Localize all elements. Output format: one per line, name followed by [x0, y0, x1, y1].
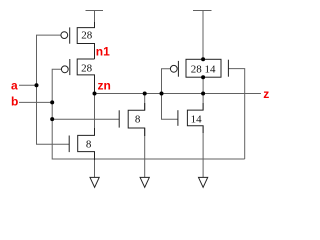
svg-text:28: 28: [81, 30, 93, 42]
svg-text:a: a: [11, 78, 18, 92]
svg-text:b: b: [11, 95, 18, 109]
svg-text:8: 8: [135, 113, 141, 125]
svg-text:zn: zn: [98, 79, 111, 93]
svg-text:28 14: 28 14: [191, 63, 216, 75]
svg-text:8: 8: [86, 139, 92, 151]
svg-text:28: 28: [81, 62, 93, 74]
svg-text:z: z: [263, 87, 269, 101]
svg-text:14: 14: [191, 114, 203, 126]
svg-text:n1: n1: [96, 45, 110, 59]
